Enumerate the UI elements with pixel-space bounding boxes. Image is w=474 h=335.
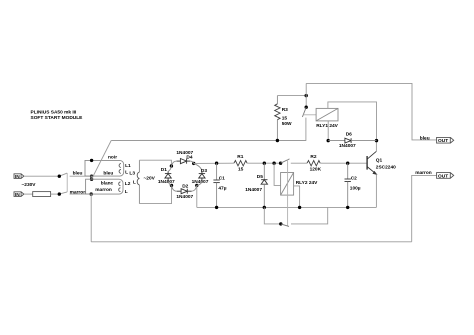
wire diagonal bleu to top rail bbox=[92, 141, 112, 180]
diode D1 bbox=[165, 171, 171, 180]
wire IN1 to switch bbox=[24, 175, 59, 177]
switch contact RLY2 (top) bbox=[281, 159, 290, 163]
connector IN 2 (marron) bbox=[14, 192, 24, 198]
node marron T1 bbox=[90, 192, 93, 195]
top rail (bleu net) bbox=[111, 140, 306, 142]
node link primary windings bbox=[90, 176, 93, 181]
switch pole B (marron) bbox=[59, 192, 67, 194]
wire R1 to switch bbox=[247, 162, 281, 164]
svg-text:~230V: ~230V bbox=[22, 182, 37, 188]
svg-text:L2: L2 bbox=[125, 181, 131, 187]
svg-text:Q1: Q1 bbox=[376, 158, 383, 164]
node RLY2 return bbox=[298, 206, 301, 209]
wire RLY2 right terminal bbox=[294, 186, 300, 208]
node C1 top bbox=[215, 162, 218, 165]
svg-text:L1: L1 bbox=[125, 163, 131, 169]
svg-text:OUT: OUT bbox=[438, 138, 448, 144]
switch contact RLY2 (bottom) bbox=[281, 224, 289, 227]
wire secondary bottom to bridge bbox=[139, 185, 171, 203]
svg-text:marron: marron bbox=[415, 170, 432, 176]
svg-text:100µ: 100µ bbox=[350, 186, 361, 192]
node D6 left bbox=[327, 139, 330, 142]
node R3 top junction bbox=[305, 94, 308, 97]
diode D3 bbox=[199, 171, 205, 180]
connector OUT 2 (marron) bbox=[437, 173, 454, 180]
svg-text:D2: D2 bbox=[182, 184, 188, 190]
node R3 bottom bbox=[276, 139, 279, 142]
node lower contact pivot bbox=[279, 222, 282, 225]
svg-text:1N4007: 1N4007 bbox=[176, 194, 193, 200]
svg-text:1N4007: 1N4007 bbox=[158, 179, 175, 185]
wire R2 to Q1 base bbox=[320, 162, 367, 164]
svg-text:R1: R1 bbox=[237, 154, 243, 160]
wire fuse to switch bbox=[51, 193, 60, 195]
wire arc bridge BL to D2 bbox=[172, 185, 177, 191]
svg-text:RLY2 24V: RLY2 24V bbox=[296, 180, 318, 186]
node C2 top bbox=[346, 162, 349, 165]
svg-text:D1: D1 bbox=[161, 167, 167, 173]
svg-text:IN: IN bbox=[15, 174, 20, 180]
svg-text:SOFT START MODULE: SOFT START MODULE bbox=[31, 115, 84, 121]
svg-text:L: L bbox=[125, 169, 128, 175]
svg-text:L: L bbox=[125, 189, 128, 195]
svg-text:D4: D4 bbox=[186, 155, 192, 161]
wire RLY1 armature linkage bbox=[303, 114, 316, 116]
transformer T1 secondary winding L3 bbox=[137, 160, 139, 203]
top rail to OUT bleu bbox=[306, 83, 436, 139]
node C2 bottom bbox=[346, 206, 349, 209]
node bridge DC+ bbox=[192, 162, 195, 165]
title text bbox=[31, 109, 84, 121]
capacitor C2 bbox=[345, 163, 351, 207]
bottom rail (marron net) bbox=[91, 241, 412, 243]
fuse F1 bbox=[33, 192, 51, 197]
svg-text:IN: IN bbox=[15, 192, 20, 198]
ground rail bbox=[197, 206, 377, 208]
svg-text:L: L bbox=[133, 180, 136, 186]
svg-text:bleu: bleu bbox=[420, 136, 430, 142]
transformer T1 primary winding 2 box bbox=[86, 179, 123, 194]
switch linkage bbox=[66, 173, 68, 192]
wire arc D3 to bridge BR bbox=[197, 181, 202, 186]
wire RLY1 top terminal bbox=[328, 102, 377, 141]
svg-text:OUT: OUT bbox=[438, 173, 448, 179]
wire bleu to transformer bbox=[70, 175, 92, 177]
wire lower contact loop right bbox=[291, 207, 328, 224]
wire arc bridge TL to D4 bbox=[171, 161, 176, 166]
wire Q1 collector up bbox=[375, 141, 377, 152]
diode D6 bbox=[328, 138, 376, 143]
svg-text:marron: marron bbox=[70, 190, 87, 196]
svg-text:~20V: ~20V bbox=[144, 176, 156, 182]
wire arc bridge TR to D3 bbox=[194, 163, 202, 171]
node RLY1 contact pivot bbox=[305, 106, 308, 109]
wire lower contact loop left bbox=[264, 207, 281, 224]
wire marron to transformer bbox=[70, 193, 92, 195]
node bridge AC top bbox=[170, 164, 173, 167]
wire switch to R2 bbox=[291, 162, 307, 164]
node noir T1 bbox=[90, 159, 93, 162]
wire bridge BR down to ground rail bbox=[196, 185, 198, 207]
wire secondary top to bridge bbox=[139, 160, 171, 166]
node D5 top bbox=[263, 162, 266, 165]
node switch B bbox=[58, 192, 61, 195]
positive rail: bridge to R1 bbox=[194, 162, 234, 164]
svg-text:15: 15 bbox=[282, 115, 288, 121]
relay coil RLY1 bbox=[316, 108, 338, 121]
svg-text:RLY1 24V: RLY1 24V bbox=[316, 123, 338, 129]
svg-text:15: 15 bbox=[238, 166, 244, 172]
capacitor C1 bbox=[213, 163, 219, 207]
node RLY2 feed bbox=[272, 162, 275, 165]
svg-text:blanc: blanc bbox=[101, 180, 114, 186]
wire RLY1 bottom terminal bbox=[327, 121, 329, 141]
diode D5 bbox=[261, 163, 267, 207]
resistor R3 bbox=[275, 96, 280, 141]
svg-text:C2: C2 bbox=[351, 175, 357, 181]
wire RLY1 contact to rail bbox=[305, 118, 307, 141]
switch pole A (bleu) bbox=[59, 173, 67, 176]
transformer T1 primary winding 1 box bbox=[85, 160, 124, 176]
svg-text:bleu: bleu bbox=[103, 171, 113, 177]
svg-text:2SC2240: 2SC2240 bbox=[376, 165, 396, 171]
wire arc D4 to bridge TR bbox=[190, 161, 194, 163]
wire Q1 emitter down bbox=[375, 174, 377, 207]
relay coil RLY2 bbox=[281, 173, 294, 196]
node switch RLY2 pivot bbox=[279, 162, 282, 165]
transistor Q1 bbox=[367, 151, 376, 174]
diode D2 bbox=[177, 189, 192, 194]
svg-text:D5: D5 bbox=[257, 174, 263, 180]
wire top rail riser bbox=[305, 83, 307, 107]
diode D4 bbox=[177, 159, 191, 164]
svg-text:50W: 50W bbox=[282, 121, 292, 127]
svg-text:noir: noir bbox=[108, 155, 117, 161]
node bridge DC- bbox=[170, 184, 173, 187]
svg-text:marron: marron bbox=[95, 187, 112, 193]
switch contact RLY1 bbox=[302, 107, 306, 117]
svg-text:C1: C1 bbox=[219, 176, 225, 182]
svg-text:bleu: bleu bbox=[73, 170, 83, 176]
wire R3 top feed bbox=[277, 95, 306, 97]
svg-text:R2: R2 bbox=[310, 154, 316, 160]
node bridge AC bottom bbox=[195, 184, 198, 187]
connector OUT 1 (bleu) bbox=[437, 137, 454, 144]
wire IN2 to fuse bbox=[24, 193, 33, 195]
svg-text:47µ: 47µ bbox=[218, 185, 226, 191]
svg-text:L3: L3 bbox=[129, 171, 135, 177]
connector IN 1 (bleu) bbox=[14, 174, 24, 180]
wire arc D1 to bridge BL bbox=[168, 181, 171, 186]
wire arc bridge TL to D1 bbox=[168, 166, 171, 171]
svg-text:PLINIUS SA50 mk III: PLINIUS SA50 mk III bbox=[31, 109, 78, 115]
node D6 right bbox=[375, 139, 378, 142]
node bleu T1 bbox=[90, 175, 93, 178]
svg-text:1N4007: 1N4007 bbox=[245, 187, 262, 193]
svg-text:D3: D3 bbox=[201, 168, 207, 174]
svg-text:1N4007: 1N4007 bbox=[339, 143, 356, 149]
svg-text:D6: D6 bbox=[346, 132, 352, 138]
wire riser to OUT marron bbox=[412, 175, 437, 241]
wire arc D2 to bridge BR bbox=[192, 185, 197, 191]
resistor R1 bbox=[234, 161, 247, 166]
svg-text:120K: 120K bbox=[310, 166, 322, 172]
wire RLY2 armature linkage bbox=[287, 160, 289, 226]
resistor R2 bbox=[307, 161, 320, 166]
node switch A bbox=[58, 175, 61, 178]
wire RLY2 left terminal bbox=[274, 163, 281, 185]
node D5 bottom bbox=[263, 206, 266, 209]
wire marron down to bottom rail bbox=[90, 194, 92, 242]
svg-text:R3: R3 bbox=[282, 107, 288, 113]
node C1 bottom bbox=[215, 206, 218, 209]
